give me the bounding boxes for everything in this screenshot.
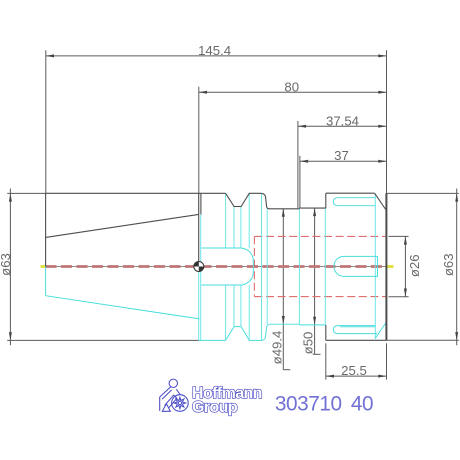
wire nut left step bottom — [325, 325, 327, 340]
wire centerline yellow tick left — [41, 265, 46, 268]
wire neck top 50 — [299, 207, 326, 209]
wire right face — [385, 193, 387, 340]
wire nut left step top — [325, 193, 327, 208]
node arrow63RB — [455, 332, 458, 340]
wire bottom slot inner edge — [340, 326, 375, 328]
wire bottom chamfer cyan — [375, 322, 386, 338]
node arrow494B — [282, 316, 285, 324]
node arrow3754L — [298, 125, 306, 128]
node arrow255R — [378, 375, 386, 378]
wire bottom slot — [333, 326, 377, 334]
wire dim 37.54 line — [298, 121, 387, 208]
wire nut top — [326, 192, 375, 194]
wire neck top 49.4 — [270, 208, 299, 210]
svg-text:145.4: 145.4 — [198, 43, 231, 58]
node arrow145L — [46, 54, 54, 57]
node arrow3754R — [378, 125, 386, 128]
wire vert 240.9 — [240, 207, 242, 248]
node arrow63RT — [455, 193, 458, 201]
wire bore hidden top — [254, 235, 386, 237]
wire dia49.4 dim — [283, 209, 290, 370]
node arrow37L — [300, 160, 308, 163]
svg-text:25.5: 25.5 — [341, 363, 367, 378]
svg-text:ø63: ø63 — [441, 253, 456, 276]
wire vert 267.2 — [266, 209, 268, 324]
wire dim 80 line — [199, 87, 387, 194]
wire mid slot — [334, 256, 378, 276]
wire centerline grey — [41, 266, 392, 268]
node centroid marker — [194, 262, 204, 272]
wire bore hidden bottom — [254, 296, 386, 298]
node arrow80R — [378, 91, 386, 94]
node arrow26B — [404, 289, 407, 297]
wire vert 261.5 — [261, 194, 263, 340]
svg-text:303710: 303710 — [275, 393, 342, 416]
svg-text:80: 80 — [284, 79, 299, 94]
wire top slot — [333, 198, 375, 206]
wire vert 375.3 nut inner face — [374, 194, 376, 339]
wire dia63 right dim — [387, 189, 459, 346]
wire flange face2 — [200, 193, 202, 214]
cyan silhouette lines group — [46, 194, 387, 341]
wire dim 37 line — [300, 160, 387, 162]
svg-text:ø63: ø63 — [0, 253, 13, 276]
node arrow50B — [313, 317, 316, 325]
wire vert 225.6 — [225, 194, 227, 248]
svg-text:37: 37 — [334, 148, 349, 163]
wire V-groove — [226, 193, 262, 206]
wire centerline red dashes — [46, 265, 387, 268]
wire vert 234.0 — [233, 207, 235, 248]
wire bore hidden left — [253, 236, 255, 296]
wire centerline yellow tick right — [387, 265, 394, 268]
node arrow145R — [378, 54, 386, 57]
wire nut chamfer top — [375, 193, 387, 210]
svg-text:40: 40 — [351, 393, 373, 416]
wire top S-step — [262, 193, 271, 208]
wire top body line — [46, 192, 226, 194]
svg-text:ø50: ø50 — [300, 332, 315, 355]
wire left edge upper — [45, 193, 47, 266]
svg-text:37.54: 37.54 — [326, 113, 359, 128]
wire vert 249.2 — [248, 194, 250, 248]
node arrow80L — [199, 91, 207, 94]
wire dim 145.4 line — [46, 50, 387, 193]
svg-text:Group: Group — [192, 399, 238, 416]
node logo icon — [160, 379, 189, 411]
wire dim 25.5 — [326, 343, 387, 379]
wire taper top edge — [46, 214, 199, 237]
wire neck bottom 49.4 — [270, 323, 299, 325]
wire dia50 dim — [313, 208, 321, 354]
wire nut bottom — [326, 339, 387, 341]
node arrow494T — [282, 209, 285, 217]
wire dia26 dim — [389, 236, 409, 296]
wire bottom flange line — [199, 327, 262, 341]
wire vert 325.3 nut face — [324, 208, 326, 325]
wire taper lower-left edge — [45, 267, 47, 296]
wire bottom S-step — [262, 324, 271, 340]
wire cavity bullet — [202, 248, 254, 285]
wire taper bottom edge — [46, 296, 200, 319]
svg-text:ø26: ø26 — [407, 254, 422, 277]
black body outline group — [46, 193, 387, 340]
node arrow63LT — [9, 193, 12, 201]
node arrow255L — [326, 375, 334, 378]
node arrow26T — [404, 236, 407, 244]
wire silhouette x200.7 — [200, 215, 202, 341]
wire flange face — [198, 193, 200, 261]
svg-text:ø49.4: ø49.4 — [269, 331, 284, 365]
wire vert 299.4 — [298, 208, 300, 325]
wire flange face lower — [198, 272, 200, 341]
wire dia63 left dim — [7, 189, 199, 346]
node arrow50T — [313, 208, 316, 216]
node arrow37R — [378, 160, 386, 163]
wire neck bottom 50 — [299, 324, 326, 326]
node arrow63LB — [9, 332, 12, 340]
